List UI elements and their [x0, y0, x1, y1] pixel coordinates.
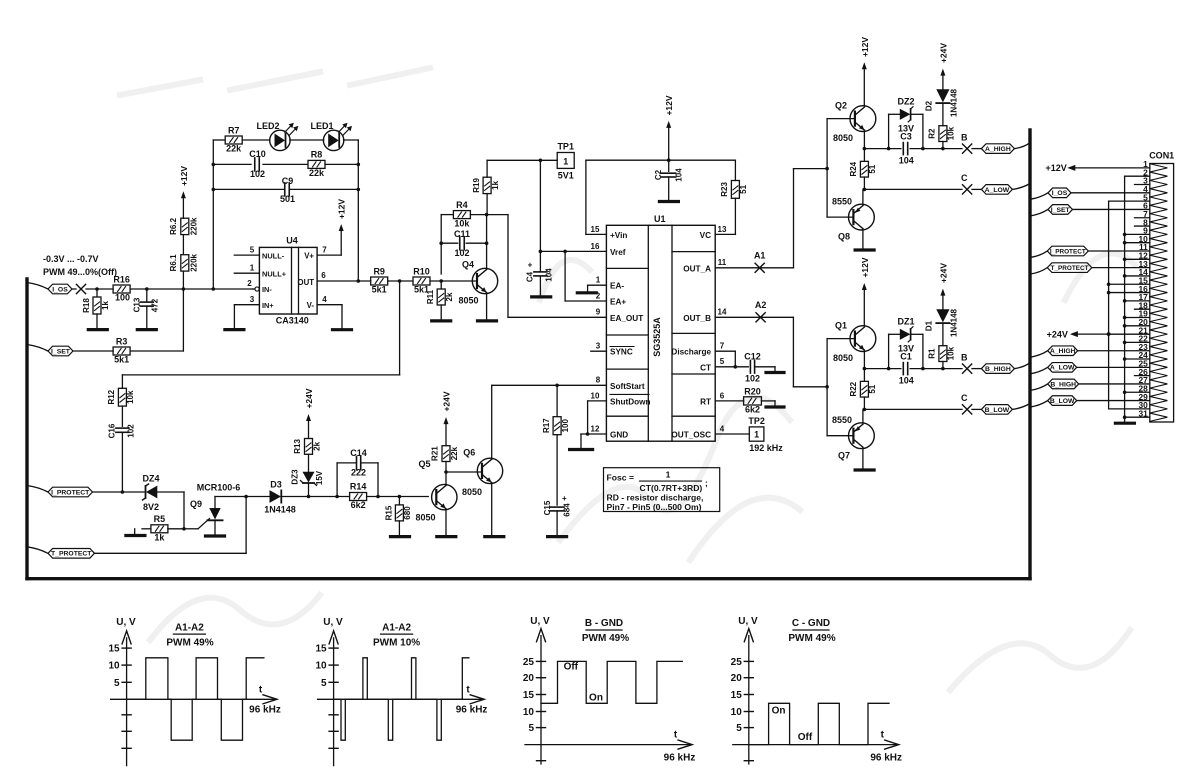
ground gnd-q9	[206, 534, 225, 537]
wire q5-collector	[444, 470, 448, 485]
svg-text:22k: 22k	[450, 446, 459, 460]
svg-text:684: 684	[563, 503, 572, 517]
pin U1-14	[715, 308, 793, 318]
svg-text:C: C	[961, 393, 968, 403]
svg-text:R5: R5	[154, 514, 166, 524]
svg-text:5k1: 5k1	[372, 285, 387, 295]
pin U4-5	[234, 246, 259, 256]
svg-text:C14: C14	[350, 448, 367, 458]
svg-text:IN-: IN-	[262, 285, 272, 294]
wire q9-anode	[215, 495, 270, 499]
resistor R22	[849, 369, 877, 410]
svg-text:PWM 10%: PWM 10%	[373, 637, 420, 648]
svg-text:IN+: IN+	[262, 301, 274, 310]
resistor R13	[293, 439, 322, 472]
wire ea-out-branch	[508, 215, 606, 318]
svg-text:102: 102	[454, 248, 469, 258]
wire outb-to-base	[793, 317, 828, 435]
ground gnd-q5	[437, 535, 456, 538]
svg-text:Q1: Q1	[835, 321, 847, 331]
svg-text:15: 15	[108, 644, 120, 655]
svg-text:A_HIGH: A_HIGH	[1050, 348, 1076, 355]
svg-text:R16: R16	[113, 275, 130, 285]
svg-text:U, V: U, V	[530, 616, 550, 627]
svg-text:EA_OUT: EA_OUT	[610, 314, 643, 323]
resistor R14	[350, 482, 367, 511]
transistor Q4 8050	[458, 260, 497, 306]
wire q7-emitter	[862, 447, 864, 470]
wire r4c11-left	[439, 215, 453, 274]
wire in-minus-net	[95, 287, 253, 291]
transistor Q6 8050	[462, 448, 503, 497]
svg-text:U4: U4	[286, 236, 298, 246]
pin U1-1	[588, 276, 607, 292]
svg-text:R24: R24	[849, 161, 858, 176]
svg-text:C10: C10	[249, 149, 266, 159]
svg-text:13V: 13V	[898, 123, 914, 133]
net A_LOW-con1	[1030, 363, 1150, 374]
resistor R7	[225, 126, 242, 154]
power +12V-u4	[337, 199, 347, 255]
svg-text:22k: 22k	[309, 168, 325, 178]
pin U4-1	[234, 264, 259, 274]
wire q1-emitter	[863, 350, 867, 370]
power +12V-q1	[860, 257, 870, 326]
power +12V-q2	[860, 37, 870, 106]
svg-text:Fosc =: Fosc =	[607, 473, 634, 483]
label input-range	[43, 254, 117, 277]
svg-text:R4: R4	[456, 200, 468, 210]
svg-text:T_PROTECT: T_PROTECT	[1051, 265, 1089, 272]
svg-text:5: 5	[321, 678, 327, 689]
svg-text:+12V: +12V	[1046, 163, 1067, 173]
svg-text:Q7: Q7	[838, 450, 850, 460]
zener DZ1	[889, 317, 923, 369]
op-amp U1 SG3525A	[606, 214, 715, 441]
svg-text:OUT_OSC: OUT_OSC	[671, 431, 711, 440]
svg-text:SoftStart: SoftStart	[610, 382, 645, 391]
svg-text:1k: 1k	[491, 180, 500, 189]
capacitor C2	[654, 160, 684, 201]
svg-text:10: 10	[108, 661, 120, 672]
svg-text:5k1: 5k1	[114, 355, 129, 365]
svg-text:16: 16	[591, 242, 600, 251]
svg-text:+Vin: +Vin	[610, 231, 627, 240]
svg-text:SG3525A: SG3525A	[652, 317, 662, 357]
ground gnd-con1	[1115, 422, 1134, 425]
svg-text:R12: R12	[107, 389, 116, 404]
svg-text:8550: 8550	[832, 197, 852, 207]
svg-text:96 kHz: 96 kHz	[456, 705, 488, 716]
svg-text:C: C	[961, 173, 968, 183]
svg-text:R14: R14	[350, 482, 367, 492]
resistor R21	[431, 446, 460, 472]
diode D1 1N4148	[925, 295, 959, 346]
svg-text:R19: R19	[472, 178, 481, 193]
svg-text:Off: Off	[564, 662, 579, 673]
svg-text:1k: 1k	[101, 301, 110, 310]
capacitor C11	[441, 229, 488, 258]
ground gnd-r20	[766, 405, 784, 408]
ground gnd-q4	[478, 319, 497, 322]
svg-text:Discharge: Discharge	[671, 348, 711, 357]
svg-text:OUT_B: OUT_B	[683, 314, 711, 323]
svg-text:C13: C13	[133, 297, 142, 312]
resistor R2	[928, 126, 956, 149]
zener DZ2	[889, 97, 923, 149]
wire q8-emitter	[862, 229, 864, 250]
svg-text:NULL+: NULL+	[262, 269, 287, 278]
svg-text:I_OS: I_OS	[52, 286, 68, 293]
resistor R5	[142, 514, 168, 543]
node C-alow	[961, 173, 972, 194]
svg-text:100: 100	[115, 293, 130, 303]
wire con1-bus-gnd	[1123, 176, 1127, 421]
svg-text:A_LOW: A_LOW	[1050, 365, 1075, 372]
svg-text:25: 25	[523, 657, 535, 668]
svg-text:51: 51	[868, 164, 877, 173]
svg-text:1k: 1k	[154, 533, 165, 543]
wire in-plus-gnd	[233, 305, 235, 330]
svg-text:+12V: +12V	[860, 257, 870, 277]
svg-text:100: 100	[561, 418, 570, 432]
svg-text:6k2: 6k2	[351, 500, 366, 510]
wire border-left	[25, 279, 28, 579]
pin U1-9	[596, 308, 601, 317]
svg-text:R11: R11	[426, 289, 435, 304]
svg-text:10: 10	[591, 391, 600, 400]
svg-text:RT: RT	[700, 397, 711, 406]
wire q6-emitter	[491, 483, 493, 537]
node C-blow	[961, 393, 972, 414]
svg-text:GND: GND	[610, 431, 628, 440]
resistor R1	[928, 346, 956, 369]
diode D2 1N4148	[925, 75, 959, 126]
svg-text:5: 5	[250, 246, 255, 255]
pin U1-8	[596, 376, 601, 385]
capacitor C14	[337, 448, 378, 497]
svg-text:On: On	[589, 693, 603, 704]
wire b-low-line	[863, 408, 962, 412]
svg-text:8050: 8050	[462, 487, 482, 497]
svg-text:B_LOW: B_LOW	[985, 407, 1010, 414]
wire border-bottom	[27, 577, 1030, 580]
svg-text:;: ;	[705, 478, 708, 488]
svg-text:D3: D3	[270, 480, 282, 490]
svg-text:12: 12	[591, 424, 600, 433]
zener DZ4	[142, 474, 159, 513]
pin U1-4	[715, 424, 749, 434]
svg-text:104: 104	[545, 268, 554, 282]
resistor R10	[413, 267, 430, 295]
svg-text:1: 1	[250, 264, 255, 273]
transistor Q2 8050	[827, 101, 876, 144]
wire iprot-dz4	[93, 490, 145, 494]
svg-text:20: 20	[523, 673, 535, 684]
capacitor C15	[543, 494, 572, 537]
svg-text:1: 1	[596, 276, 601, 285]
svg-text:U, V: U, V	[738, 616, 758, 627]
svg-text:8050: 8050	[415, 513, 435, 523]
svg-text:22k: 22k	[226, 144, 242, 154]
op-amp U4 CA3140	[259, 236, 317, 326]
svg-text:R18: R18	[82, 298, 91, 313]
svg-text:TP2: TP2	[748, 416, 765, 426]
capacitor C3	[899, 132, 914, 166]
ground gnd-q8	[855, 248, 874, 251]
wire r10-q4base	[430, 279, 477, 283]
svg-text:CT(0.7RT+3RD): CT(0.7RT+3RD)	[640, 483, 703, 493]
svg-text:Q6: Q6	[463, 448, 475, 458]
svg-text:2k: 2k	[313, 441, 322, 450]
svg-text:+24V: +24V	[442, 391, 452, 411]
svg-text:Q4: Q4	[462, 260, 474, 270]
wire tprot	[95, 497, 247, 554]
label LED2	[256, 121, 279, 131]
pin U1-13	[715, 225, 735, 235]
wire iset-r3	[73, 350, 113, 352]
svg-text:R8: R8	[311, 150, 323, 160]
wire border-right	[1028, 130, 1031, 579]
net I_PROTECT	[27, 486, 93, 497]
svg-text:CON1: CON1	[1149, 151, 1174, 161]
wire feedback-r12	[122, 281, 399, 388]
svg-text:7: 7	[322, 246, 327, 255]
svg-text:R21: R21	[431, 446, 440, 461]
net A_LOW	[972, 184, 1030, 195]
capacitor C10	[249, 149, 266, 179]
svg-text:D1: D1	[925, 320, 934, 331]
wire q8-collector	[862, 189, 864, 205]
svg-text:10k: 10k	[947, 126, 956, 140]
node B-ahigh	[961, 132, 972, 153]
ground gnd-c12	[766, 371, 784, 374]
svg-text:EA-: EA-	[610, 282, 624, 291]
svg-text:B_HIGH: B_HIGH	[985, 366, 1011, 373]
resistor R12	[107, 388, 135, 426]
pin U4-3	[234, 295, 259, 305]
svg-text:2: 2	[247, 279, 252, 288]
chart graph-C-GND	[731, 616, 902, 764]
svg-text:4: 4	[322, 295, 327, 304]
transistor Q8 8550	[827, 197, 874, 242]
ground gnd-r18	[88, 328, 107, 331]
svg-text:B: B	[961, 352, 968, 362]
svg-text:C16: C16	[108, 423, 117, 438]
svg-text:Off: Off	[798, 732, 813, 743]
net B_HIGH	[972, 363, 1030, 374]
svg-text:51: 51	[739, 184, 748, 193]
pin U1-2	[565, 251, 606, 301]
svg-text:SYNC: SYNC	[610, 348, 633, 357]
pin U4-2	[247, 279, 259, 291]
zener DZ3	[291, 469, 325, 497]
svg-text:2k: 2k	[445, 292, 454, 301]
svg-text:+24V: +24V	[938, 43, 948, 63]
ground gnd-u4inplus	[225, 328, 244, 331]
svg-text:5: 5	[736, 723, 742, 734]
svg-text:6: 6	[321, 271, 326, 280]
svg-text:C15: C15	[543, 500, 552, 515]
resistor R20	[744, 386, 775, 414]
connector CON1	[1149, 151, 1174, 422]
svg-text:Q2: Q2	[835, 101, 847, 111]
net T_PROTECT-con1	[1030, 263, 1150, 274]
LED LED2	[270, 123, 299, 151]
svg-text:15: 15	[315, 644, 327, 655]
svg-text:+12V: +12V	[337, 199, 347, 219]
svg-text:20: 20	[731, 673, 743, 684]
wire q4-emitter	[486, 293, 488, 321]
wire q7-collector	[862, 409, 864, 424]
wire q6-base	[446, 471, 482, 473]
svg-text:15: 15	[731, 690, 743, 701]
svg-text:13: 13	[718, 225, 727, 234]
resistor R15	[385, 497, 413, 537]
svg-text:1: 1	[754, 430, 759, 440]
svg-text:R22: R22	[849, 381, 858, 396]
svg-text:DZ4: DZ4	[142, 474, 159, 484]
svg-text:10: 10	[523, 707, 535, 718]
svg-text:C11: C11	[454, 229, 470, 239]
svg-text:+12V: +12V	[664, 95, 674, 115]
svg-text:R6.2: R6.2	[169, 217, 178, 234]
svg-text:10k: 10k	[947, 346, 956, 360]
svg-text:1N4148: 1N4148	[950, 308, 959, 337]
svg-text:R10: R10	[413, 267, 430, 277]
svg-text:DZ1: DZ1	[897, 317, 914, 327]
node B-bhigh	[961, 352, 972, 373]
resistor R4	[453, 200, 470, 229]
ground gnd-c13	[137, 328, 156, 331]
svg-text:220k: 220k	[190, 217, 199, 235]
svg-text:102: 102	[127, 424, 136, 438]
wire r9-r10	[388, 279, 413, 283]
svg-text:PWM 49%: PWM 49%	[166, 637, 213, 648]
capacitor C16	[108, 423, 136, 492]
svg-text:R6.1: R6.1	[169, 254, 178, 271]
svg-text:1N4148: 1N4148	[264, 505, 296, 515]
ground gnd-c4	[532, 295, 551, 298]
svg-text:I_OS: I_OS	[1052, 190, 1068, 197]
power +24V-d1	[938, 263, 948, 296]
svg-text:RD - resistor discharge,: RD - resistor discharge,	[607, 493, 704, 503]
svg-text:R13: R13	[293, 439, 302, 454]
svg-text:8050: 8050	[458, 296, 478, 306]
pin U1-10	[588, 391, 607, 434]
wire r6-bottom	[182, 271, 186, 291]
svg-text:B: B	[961, 132, 968, 142]
ground gnd-r5	[126, 529, 145, 536]
svg-text:222: 222	[351, 468, 366, 478]
wire r3-up	[130, 289, 183, 351]
svg-text:A1-A2: A1-A2	[382, 623, 411, 634]
power +12V-u1	[664, 95, 674, 160]
svg-text:8: 8	[596, 376, 601, 385]
wire outa-to-base	[794, 119, 829, 268]
svg-text:501: 501	[280, 194, 295, 204]
wire r5-right	[168, 527, 186, 531]
wire led-top-rail	[213, 140, 358, 289]
svg-text:15: 15	[591, 225, 600, 234]
svg-text:96 kHz: 96 kHz	[664, 753, 696, 764]
svg-text:Q9: Q9	[190, 499, 202, 509]
svg-text:6k2: 6k2	[745, 405, 760, 415]
ground gnd-u4vminus	[333, 328, 352, 331]
svg-text:Q5: Q5	[418, 459, 430, 469]
svg-text:25: 25	[731, 657, 743, 668]
svg-text:10k: 10k	[454, 219, 470, 229]
resistor R24	[849, 149, 877, 190]
wire led-row3	[212, 188, 361, 192]
ground gnd-ea-minus	[577, 291, 596, 294]
svg-text:R20: R20	[744, 386, 761, 396]
svg-text:14: 14	[718, 308, 727, 317]
ground gnd-q7	[855, 468, 874, 471]
svg-text:8550: 8550	[832, 415, 852, 425]
diode D3	[264, 480, 296, 515]
svg-text:8050: 8050	[833, 133, 853, 143]
wire r14-q5	[367, 495, 429, 499]
capacitor C4	[526, 251, 554, 297]
wire dz4-right	[157, 492, 184, 529]
svg-text:R1: R1	[928, 348, 937, 359]
wire tp1-rail	[487, 159, 557, 163]
svg-text:V+: V+	[304, 251, 314, 260]
svg-text:CA3140: CA3140	[276, 316, 309, 326]
resistor R6.1	[169, 253, 199, 271]
chart graph-A1A2-49	[108, 617, 280, 766]
resistor R9	[371, 267, 388, 295]
wire r6-mid	[182, 235, 184, 255]
wire vref-vert	[539, 160, 543, 253]
svg-text:102: 102	[745, 374, 760, 384]
svg-text:D2: D2	[925, 100, 934, 111]
svg-text:C12: C12	[744, 352, 761, 362]
svg-text:R17: R17	[542, 418, 551, 433]
power +24V-r21	[442, 391, 452, 446]
net A_HIGH	[972, 143, 1030, 154]
wire a-high-line	[864, 147, 962, 151]
svg-text:10: 10	[315, 661, 327, 672]
svg-text:10: 10	[731, 707, 743, 718]
transistor Q7 8550	[827, 415, 874, 460]
svg-text:I_PROTECT: I_PROTECT	[1050, 248, 1086, 255]
capacitor C12	[744, 352, 775, 384]
chart graph-A1A2-10	[315, 617, 487, 766]
net I_PROTECT-con1	[1030, 246, 1150, 257]
wire r4-right	[470, 213, 508, 243]
pin U4-6	[317, 271, 371, 283]
svg-text:-0.3V ... -0.7V: -0.3V ... -0.7V	[43, 254, 99, 264]
power +24V-con1	[1047, 329, 1150, 339]
ground gnd-r15	[391, 535, 410, 538]
svg-text:C2: C2	[654, 169, 663, 180]
wire con1-bus-24v	[1107, 201, 1111, 409]
net I_SET	[27, 345, 73, 356]
resistor R6.2	[169, 217, 199, 235]
svg-text:104: 104	[899, 156, 914, 166]
svg-text:3: 3	[596, 342, 601, 351]
net A_HIGH-con1	[1030, 346, 1150, 357]
svg-text:C - GND: C - GND	[792, 618, 830, 629]
resistor R8	[308, 150, 325, 178]
svg-text:472: 472	[151, 298, 160, 312]
svg-text:+24V: +24V	[304, 388, 314, 408]
resistor R18	[82, 289, 110, 330]
svg-text:3: 3	[250, 295, 255, 304]
svg-text:R23: R23	[720, 182, 729, 197]
